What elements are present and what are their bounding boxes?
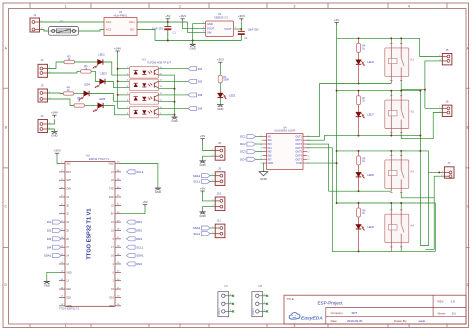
svg-text:GND: GND: [171, 119, 177, 123]
svg-text:Date:: Date:: [331, 319, 338, 323]
net flag DR1: [127, 220, 143, 224]
+5V rail block 2: [337, 90, 421, 92]
U5 pins left: [59, 162, 72, 308]
svg-text:GND: GND: [199, 163, 205, 167]
svg-text:HDR-3: HDR-3: [253, 307, 255, 314]
wire LED5 to opto pin8: [103, 106, 130, 115]
red wire column block 2: [358, 91, 360, 96]
relay K1: [385, 44, 415, 84]
stub to pin3: [118, 80, 130, 82]
svg-text:DC3: DC3: [240, 150, 246, 154]
stub to pin1: [118, 68, 130, 70]
svg-text:EasyEDA: EasyEDA: [301, 316, 323, 322]
svg-text:U3: U3: [142, 57, 146, 61]
power flag +5V: [142, 200, 147, 207]
header U8: [252, 284, 268, 317]
svg-text:+5V: +5V: [334, 18, 339, 22]
svg-text:GND: GND: [66, 271, 72, 274]
wire R3 to LED3: [91, 71, 100, 81]
svg-text:3: 3: [294, 4, 296, 8]
net flag DI4: [188, 106, 203, 110]
svg-text:GND: GND: [217, 107, 223, 111]
resistor R1 330R: [218, 75, 229, 83]
svg-text:DC4: DC4: [240, 157, 246, 161]
relay K3: [385, 156, 415, 193]
net flag DI4: [47, 245, 61, 249]
relay K4: [385, 210, 415, 252]
svg-text:SDA2: SDA2: [44, 254, 52, 258]
svg-text:F1: F1: [60, 20, 64, 24]
svg-text:SD0: SD0: [109, 305, 114, 308]
svg-text:U7: U7: [224, 284, 228, 288]
coil top wire block 3: [390, 151, 392, 156]
module U5 ESP32 TTGO T1: [59, 154, 115, 311]
+5V rail block 3: [337, 150, 429, 152]
svg-text:+3V3: +3V3: [217, 58, 224, 62]
wire U2 GND pin to gnd rail: [193, 24, 206, 41]
net flag DR4: [127, 262, 143, 266]
driver U4 ULN2003: [267, 125, 303, 169]
svg-text:K4: K4: [411, 224, 415, 228]
wire J3 pin1 to R4: [48, 92, 64, 95]
svg-text:LED8: LED8: [367, 173, 374, 177]
svg-text:Drawn By:: Drawn By:: [394, 319, 407, 323]
U5 pins right: [108, 162, 121, 308]
capacitor C1 10uF 25V: [152, 22, 176, 41]
svg-text:LED3: LED3: [100, 71, 107, 75]
LED LED8: [356, 172, 365, 178]
ground GND6 (ESP right): [155, 188, 161, 194]
wire ESP 5V to +5V flag: [121, 207, 145, 214]
net flag DI2: [188, 79, 203, 83]
svg-text:SCL2: SCL2: [193, 232, 200, 236]
long vertical K4 contacts up to J7 area: [420, 172, 428, 245]
wire +3V3 to ESP 3V3 pin: [57, 156, 59, 164]
wire opto collector 1: [159, 68, 189, 70]
power flag +24V: [51, 111, 58, 118]
connector J10: [212, 192, 225, 211]
wire U1 DC- to gnd rail: [137, 30, 155, 41]
svg-text:J7: J7: [448, 161, 451, 165]
svg-text:IN2: IN2: [268, 139, 273, 142]
svg-text:J10: J10: [217, 192, 222, 196]
svg-text:IN4: IN4: [268, 147, 273, 150]
svg-text:OUT1: OUT1: [295, 135, 302, 138]
resistor R9: [357, 208, 367, 217]
+5V rail block 1: [337, 37, 420, 39]
connector J6: [439, 100, 452, 117]
stub to pin7: [118, 107, 130, 109]
svg-text:J4: J4: [41, 114, 44, 118]
svg-text:SVN: SVN: [66, 188, 71, 191]
AC-DC module U1 HLK-PM01: [104, 10, 137, 35]
svg-text:GND: GND: [44, 284, 50, 288]
red wire column block 3: [358, 151, 360, 156]
ground GND3 (opto): [171, 117, 177, 123]
svg-text:AC1: AC1: [106, 20, 112, 24]
net flag DC3: [240, 150, 255, 154]
svg-text:LED4: LED4: [84, 82, 91, 86]
svg-text:Sheet:: Sheet:: [438, 311, 447, 315]
coil bottom rail block 4 (to ULN OUT4): [307, 148, 435, 252]
ground near U2: [192, 41, 194, 45]
svg-text:GND: GND: [268, 162, 274, 165]
svg-text:LED7: LED7: [367, 113, 374, 117]
svg-text:RST: RST: [66, 171, 71, 174]
net flag DC4: [240, 157, 255, 161]
svg-text:+5V: +5V: [200, 134, 205, 138]
svg-text:LED2: LED2: [98, 52, 105, 56]
net flag DI2: [47, 228, 61, 232]
anode common vertical wire: [117, 54, 119, 109]
COM wire to +5V trunk: [307, 162, 337, 164]
svg-text:SCL2: SCL2: [136, 170, 143, 174]
coil top wire block 2: [390, 91, 392, 96]
connector J9: [212, 166, 225, 185]
B2 rail corner to bottom / long vertical: [419, 91, 421, 246]
svg-text:COM: COM: [296, 162, 302, 165]
svg-text:SVP: SVP: [66, 179, 71, 182]
net flag DI1: [188, 67, 203, 71]
svg-text:OUT4: OUT4: [295, 147, 302, 150]
svg-text:OUT3: OUT3: [295, 143, 302, 146]
wire LED4 to opto pin6: [89, 94, 130, 102]
connector J5: [439, 48, 452, 65]
ground GND5 (ESP left): [44, 281, 50, 287]
svg-text:ULN2003G-S16-R: ULN2003G-S16-R: [274, 129, 295, 133]
net flag SCL1: [127, 245, 144, 249]
opto channel 4: [127, 106, 163, 118]
svg-text:DI3: DI3: [198, 93, 203, 97]
svg-text:10uF 25V: 10uF 25V: [248, 28, 260, 32]
svg-text:DI3: DI3: [47, 237, 52, 241]
svg-text:DI4: DI4: [198, 107, 203, 111]
wire R2 to LED2: [75, 61, 98, 63]
wire +5V to U2 VIN: [188, 22, 206, 33]
svg-text:4: 4: [408, 324, 410, 328]
svg-text:+5V: +5V: [165, 14, 170, 18]
svg-text:+3V3: +3V3: [238, 14, 245, 18]
connector J8: [212, 141, 225, 160]
coil bottom rail block 2 (to ULN OUT2): [307, 136, 420, 141]
K4 switch bottom: [400, 247, 402, 251]
net flag SDA1: [193, 174, 210, 178]
LED LED4: [79, 91, 89, 100]
title text: [287, 297, 457, 323]
LED LED5: [93, 103, 103, 112]
connector J3: [38, 84, 51, 102]
resistor R4: [63, 86, 74, 95]
svg-text:SD3: SD3: [66, 296, 71, 299]
wire J1 pin1 to U1 AC1: [40, 21, 105, 23]
wire U4 GND to ground: [262, 163, 265, 172]
svg-text:1: 1: [65, 324, 67, 328]
svg-text:OUT5: OUT5: [295, 151, 302, 154]
svg-text:SCL1: SCL1: [136, 245, 143, 249]
resistor R5: [74, 97, 85, 107]
svg-text:SDA2: SDA2: [193, 226, 201, 230]
+5V rail block 4: [337, 202, 436, 204]
svg-text:J5: J5: [446, 48, 449, 52]
svg-text:IN3: IN3: [268, 143, 273, 146]
resistor R7: [357, 96, 367, 105]
+5V trunk: [336, 25, 338, 203]
resistor R3: [81, 65, 92, 73]
svg-text:CMD: CMD: [66, 305, 72, 308]
svg-text:DR1: DR1: [136, 220, 142, 224]
svg-text:GND: GND: [51, 134, 57, 138]
svg-text:J6: J6: [446, 100, 449, 104]
wire LED3 to opto pin4: [105, 82, 130, 88]
svg-text:J1: J1: [33, 13, 36, 17]
svg-text:330R: 330R: [223, 79, 229, 82]
connector J7: [441, 161, 454, 178]
svg-text:SDA1: SDA1: [136, 254, 144, 258]
svg-text:AC2: AC2: [106, 28, 112, 32]
svg-text:DC1: DC1: [240, 135, 246, 139]
svg-text:+24V: +24V: [51, 111, 58, 115]
wire +3V3 to U2 VOUT left: [183, 28, 206, 30]
net flag DR2: [127, 228, 143, 232]
coil bottom rail block 3 (to ULN OUT3): [307, 144, 391, 191]
red wire column block 4: [358, 203, 360, 208]
resistor R2: [64, 56, 75, 64]
svg-text:VIN: VIN: [207, 31, 211, 35]
power flag +24V: [114, 46, 121, 53]
svg-text:DC2: DC2: [240, 142, 246, 146]
ground GND1: [190, 44, 196, 50]
svg-text:SE8533-3.3: SE8533-3.3: [214, 15, 228, 19]
svg-text:DI2: DI2: [198, 79, 203, 83]
svg-text:ESP32 TTGO T1: ESP32 TTGO T1: [89, 157, 110, 161]
switch top wire block 4: [400, 203, 402, 210]
svg-text:SD2: SD2: [66, 288, 71, 291]
svg-text:2: 2: [179, 324, 181, 328]
svg-text:2019-09-30: 2019-09-30: [347, 319, 363, 323]
svg-text:SPT: SPT: [352, 311, 358, 315]
title block: [284, 295, 466, 324]
switch top wire block 3: [400, 151, 402, 156]
power flag +5V: [334, 18, 339, 25]
wire opto collector 3: [159, 94, 189, 96]
wire J4 pin1 to +24V: [48, 119, 55, 124]
svg-text:GND: GND: [207, 22, 213, 26]
LED LED6: [356, 60, 365, 66]
K4 right vertical: [434, 203, 436, 251]
svg-text:IN7: IN7: [268, 158, 273, 161]
svg-text:GND: GND: [199, 214, 205, 218]
ground GND8 (J10): [199, 212, 205, 218]
svg-text:DI2: DI2: [47, 229, 52, 233]
net flag DI1: [47, 220, 61, 224]
coil bottom rail block 1 (to ULN OUT1): [307, 84, 391, 137]
svg-text:GND: GND: [190, 46, 196, 50]
svg-text:J2: J2: [41, 58, 44, 62]
wire J2 pin1 to R2: [48, 62, 65, 69]
wire R1 to LED1: [219, 83, 221, 93]
svg-text:J11: J11: [217, 219, 222, 223]
header U7: [218, 284, 234, 317]
connector J2: [38, 58, 51, 77]
net flag SCL1: [193, 179, 210, 183]
opto channel 1: [127, 67, 163, 79]
regulator U2: [203, 12, 237, 36]
power flag +5V: [200, 134, 205, 141]
svg-text:GND: GND: [108, 163, 114, 166]
net flag DI3: [188, 93, 203, 97]
svg-text:VOUT: VOUT: [224, 27, 232, 31]
net flag DI3: [47, 237, 61, 241]
LED LED9: [356, 224, 365, 230]
wire R4 to LED4: [74, 93, 84, 95]
svg-text:TTGO ESP32 T1 V1: TTGO ESP32 T1 V1: [87, 209, 93, 260]
ground GND7 (J8): [199, 161, 205, 167]
vertical feed to J6 pin1: [424, 90, 426, 109]
wire J8 pin2 to ground: [203, 156, 216, 161]
svg-text:SDA1: SDA1: [193, 174, 201, 178]
svg-text:2: 2: [179, 4, 181, 8]
connector J4: [38, 114, 51, 132]
svg-text:+24V: +24V: [114, 46, 121, 50]
svg-text:OUT7: OUT7: [295, 158, 302, 161]
net flag SDA1: [127, 254, 145, 258]
LED LED2: [93, 59, 103, 68]
wire +3V3 to R1: [219, 65, 221, 76]
svg-text:GND: GND: [260, 177, 268, 181]
svg-text:LED5: LED5: [99, 97, 106, 101]
LED LED3: [95, 79, 105, 88]
svg-text:K3: K3: [411, 169, 415, 173]
power flag +3V3: [217, 58, 224, 65]
svg-text:SCL1: SCL1: [193, 180, 200, 184]
wire J10 pin2 to ground: [203, 207, 216, 212]
svg-text:HDR-3: HDR-3: [219, 307, 221, 314]
svg-text:VOUT: VOUT: [207, 27, 215, 31]
wire +5V to J8 pin1: [203, 141, 216, 150]
fuse F1: [49, 20, 79, 36]
svg-text:IN6: IN6: [268, 154, 273, 157]
svg-text:HLK-PM01: HLK-PM01: [114, 14, 128, 18]
J7 feed from rail 3: [429, 151, 445, 173]
opto channel 3: [127, 93, 163, 105]
svg-text:DR3: DR3: [136, 237, 142, 241]
svg-text:SD1: SD1: [109, 296, 114, 299]
svg-text:1/1: 1/1: [452, 311, 457, 315]
resistor R8: [357, 156, 367, 165]
K1 switch bottom to J5 pin2: [401, 61, 442, 90]
svg-text:DC+: DC+: [130, 20, 136, 24]
svg-text:+3V3: +3V3: [53, 149, 60, 153]
power flag +3V3: [53, 149, 60, 156]
svg-text:+5V: +5V: [142, 200, 147, 204]
K3 switch bottom to J7 pin2: [401, 176, 444, 198]
wire LED1 to ground: [219, 98, 221, 105]
switch top wire block 2: [400, 91, 402, 96]
svg-text:sarat: sarat: [419, 319, 426, 323]
emitter common wires: [159, 74, 175, 76]
coil top wire block 4: [390, 203, 392, 210]
gnd rail: [155, 40, 241, 42]
power flag +3V3: [179, 14, 186, 21]
svg-text:J8: J8: [218, 141, 221, 145]
wire opto collector 4: [159, 107, 189, 109]
svg-text:DI4: DI4: [47, 245, 52, 249]
wire U2 VOUT right to +3V3 and C2: [234, 28, 242, 30]
connector J11: [212, 219, 225, 238]
svg-text:+3V3: +3V3: [179, 14, 186, 18]
stub to pin5: [118, 94, 130, 96]
svg-text:5V: 5V: [111, 213, 114, 216]
switch top wire block 1: [400, 38, 402, 43]
svg-text:U8: U8: [258, 284, 262, 288]
svg-text:OUT2: OUT2: [295, 139, 302, 142]
ground GND2: [51, 132, 57, 138]
J5 feed from rail 1: [420, 38, 443, 56]
wire ESP GND right to ground: [121, 164, 158, 189]
power flag +3V3: [238, 14, 245, 21]
svg-text:DR2: DR2: [136, 229, 142, 233]
svg-text:REV:: REV:: [438, 300, 445, 304]
red wire column block 1: [358, 38, 360, 43]
optocoupler U3 TLP290-4: [142, 57, 171, 64]
wire +5V to J10 pin1: [203, 194, 216, 201]
net flag SDA2: [193, 226, 210, 230]
svg-text:DI1: DI1: [47, 220, 52, 224]
svg-text:GND: GND: [155, 190, 161, 194]
power flag +5V: [200, 186, 205, 193]
svg-text:K2: K2: [411, 110, 415, 114]
wire J3 pin2 to R5: [48, 99, 75, 106]
svg-text:LED6: LED6: [367, 60, 374, 64]
svg-text:TLP290-4GB TP E/T: TLP290-4GB TP E/T: [147, 61, 171, 65]
EasyEDA logo: [289, 313, 323, 322]
net flag DR3: [127, 237, 143, 241]
net flag SCL2: [193, 232, 210, 236]
svg-text:+5V: +5V: [200, 186, 205, 190]
svg-text:TITLE:: TITLE:: [287, 297, 295, 301]
connector J1: [30, 13, 43, 32]
svg-text:Company:: Company:: [331, 311, 344, 315]
svg-text:LED1: LED1: [229, 93, 236, 97]
LED LED7: [356, 112, 365, 118]
net flag DC2: [240, 142, 255, 146]
svg-text:1.0: 1.0: [451, 300, 456, 304]
K2 switch bottom to J6 pin2: [401, 113, 442, 139]
relay K2: [385, 96, 415, 136]
svg-text:TXD: TXD: [109, 188, 114, 191]
wire J1 pin2 to fuse: [40, 30, 49, 32]
svg-text:DC-: DC-: [130, 28, 135, 32]
svg-text:J9: J9: [218, 166, 221, 170]
wire U1 DC+ to +5V rail: [137, 21, 188, 23]
net flag SCL2: [127, 170, 144, 174]
svg-text:RXD: RXD: [109, 196, 114, 199]
svg-text:3: 3: [294, 324, 296, 328]
resistor R6: [357, 43, 367, 52]
opto channel 2: [127, 79, 163, 91]
svg-text:3V3: 3V3: [66, 163, 71, 166]
svg-text:ESP-Project: ESP-Project: [317, 301, 343, 306]
power flag +5V: [165, 14, 170, 21]
svg-text:J3: J3: [41, 84, 44, 88]
svg-text:IN5: IN5: [268, 151, 273, 154]
net flag DC1: [240, 134, 255, 138]
svg-text:IN1: IN1: [268, 135, 273, 138]
ground GND9 (U4): [259, 172, 268, 182]
svg-text:K1: K1: [411, 57, 415, 61]
svg-text:1: 1: [65, 4, 67, 8]
wire fuse to U1 AC2: [79, 30, 105, 32]
